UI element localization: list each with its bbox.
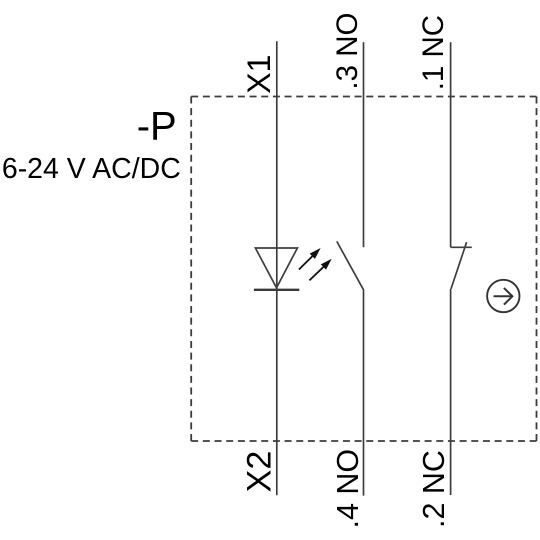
actuator arrow shaft (494, 295, 512, 297)
lamp LED triangle (255, 248, 297, 288)
dashed enclosure outline right edge (536, 97, 538, 442)
LED emission arrow 2 head (321, 259, 332, 270)
dashed enclosure outline bottom edge (191, 440, 536, 442)
wire X1-X2 (through lamp) (276, 41, 278, 495)
dashed enclosure outline left edge (190, 97, 192, 442)
NO contact bottom wire .4 (363, 290, 365, 495)
svg-text:6-24 V AC/DC: 6-24 V AC/DC (2, 153, 181, 185)
LED emission arrow 1 shaft (299, 256, 313, 269)
LED emission arrow 1 head (310, 248, 321, 259)
NC contact bottom wire .2 (450, 289, 452, 495)
NC contact top wire .1 (450, 42, 452, 247)
lamp cathode bar (254, 289, 299, 291)
NO contact blade (337, 241, 364, 290)
NO contact top wire .3 (363, 42, 365, 247)
NC contact blade (451, 242, 467, 289)
actuator circle (487, 280, 519, 312)
svg-text:-P: -P (137, 105, 177, 149)
svg-text:X1: X1 (241, 55, 277, 94)
svg-text:X2: X2 (241, 451, 279, 493)
dashed enclosure outline top edge (191, 96, 536, 98)
svg-text:.4 NO: .4 NO (331, 449, 365, 529)
NC contact seat bar (451, 246, 472, 248)
LED emission arrow 2 shaft (309, 267, 323, 281)
svg-text:.3 NO: .3 NO (331, 13, 364, 90)
svg-text:.1 NC: .1 NC (417, 15, 450, 90)
svg-text:.2 NC: .2 NC (417, 450, 451, 528)
actuator arrow chevron (504, 288, 513, 305)
